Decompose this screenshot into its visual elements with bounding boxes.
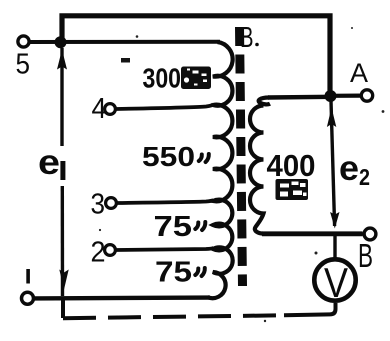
svg-text:A: A: [350, 58, 368, 88]
svg-text:e: e: [339, 149, 359, 188]
svg-text:B: B: [358, 237, 373, 274]
svg-text:V: V: [324, 259, 348, 306]
svg-text:75: 75: [155, 257, 192, 289]
svg-text:e: e: [38, 143, 60, 182]
svg-text:5: 5: [16, 49, 31, 81]
svg-text:75: 75: [154, 211, 193, 243]
svg-text:B: B: [240, 22, 254, 54]
svg-text:300: 300: [143, 63, 182, 94]
svg-text:3: 3: [91, 189, 106, 221]
svg-text:4: 4: [92, 93, 107, 125]
svg-text:2: 2: [91, 237, 106, 269]
svg-text:400: 400: [267, 148, 316, 183]
svg-text:550: 550: [142, 141, 195, 172]
svg-text:2: 2: [359, 164, 370, 190]
